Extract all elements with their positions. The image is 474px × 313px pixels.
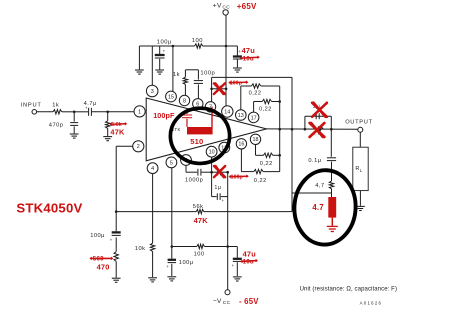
node mute left <box>210 171 213 174</box>
svg-text:4.7: 4.7 <box>312 203 323 212</box>
wire 47k to ground <box>107 128 109 136</box>
wire fb cap branch <box>115 212 117 232</box>
ground 10k <box>148 278 157 282</box>
capacitor 470p <box>70 123 78 126</box>
svg-text:0,22: 0,22 <box>259 106 272 112</box>
wire 100 link left <box>172 246 197 248</box>
terminal OUTPUT <box>358 127 363 132</box>
svg-text:18: 18 <box>253 137 259 143</box>
svg-text:470: 470 <box>97 263 110 272</box>
wire NFB to bootstrap <box>116 211 196 213</box>
wire +Vcc vertical feed <box>225 15 227 106</box>
highlight circle mod2 <box>292 169 357 247</box>
ground left of rail <box>135 70 144 74</box>
highlight circle mod1 <box>169 106 232 165</box>
svg-text:+: + <box>222 198 225 203</box>
wire pin13 leg <box>240 86 242 110</box>
wire 47u bottom stub <box>228 246 238 248</box>
ground added (red) <box>327 226 338 231</box>
svg-text:10: 10 <box>209 150 215 156</box>
wire pin15 up leg <box>172 46 174 91</box>
wire pin3 up leg <box>151 46 153 86</box>
wire 0.22d to rail <box>263 171 280 173</box>
wire zobel mid <box>331 162 333 181</box>
svg-text:0,22: 0,22 <box>254 178 267 184</box>
pin 5 <box>166 157 177 168</box>
wire zobel to node <box>331 189 333 197</box>
svg-text:−V: −V <box>213 298 222 305</box>
svg-text:10u: 10u <box>243 56 254 63</box>
pin 9 <box>181 155 192 166</box>
svg-text:L: L <box>360 168 363 173</box>
ground input 47k <box>103 137 112 141</box>
node -Vcc 100 link <box>226 245 229 248</box>
svg-text:+: + <box>110 237 113 242</box>
ground RL <box>356 206 365 210</box>
svg-text:OUTPUT: OUTPUT <box>345 120 373 126</box>
resistor 56k NFB <box>196 209 204 213</box>
wire pin4 down <box>152 174 154 244</box>
svg-text:100: 100 <box>192 38 203 44</box>
node LC left <box>304 128 307 131</box>
wire 100p to pin6 <box>197 84 199 98</box>
svg-text:100: 100 <box>194 252 205 258</box>
svg-text:1k: 1k <box>173 72 180 78</box>
svg-text:3: 3 <box>151 89 154 95</box>
node Xcap left <box>210 88 213 91</box>
svg-text:100μ: 100μ <box>90 233 105 239</box>
wire 0.22 rail <box>279 86 281 172</box>
svg-text:100p: 100p <box>200 71 215 77</box>
svg-text:100p: 100p <box>230 81 242 87</box>
pin 17 <box>248 112 259 123</box>
resistor 510 added (red) <box>187 127 213 134</box>
wire 100p upper leg <box>197 70 199 80</box>
terminal INPUT <box>32 110 37 115</box>
svg-text:56k: 56k <box>193 204 204 210</box>
node 0.22c rail <box>278 154 281 157</box>
pin 15 <box>166 91 177 102</box>
ground 100u top <box>155 70 164 74</box>
wire pin10 down <box>211 157 213 172</box>
wire pin17 leg <box>253 102 255 113</box>
wire zobel upper <box>330 129 332 157</box>
cross-out X over 100p cap <box>214 83 225 94</box>
capacitor 100u top <box>155 55 165 58</box>
wire pin5 down <box>171 168 173 247</box>
cross-out X inline resistor <box>310 123 325 137</box>
svg-text:510: 510 <box>190 137 203 146</box>
svg-text:14: 14 <box>224 109 230 115</box>
wire node to 4.7u <box>74 111 88 113</box>
wire 1k to pin8 <box>184 84 186 95</box>
pin 8 <box>179 95 189 105</box>
wire 4.7u to node2 <box>92 111 108 113</box>
svg-text:5: 5 <box>170 160 173 166</box>
resistor 0.22 b <box>262 99 271 103</box>
node rail-pin15 <box>172 45 175 48</box>
svg-text:2: 2 <box>137 144 140 150</box>
wire 10k to ground <box>152 251 154 277</box>
svg-text:- 65V: - 65V <box>239 297 259 306</box>
wire top supply rail <box>139 45 194 47</box>
wire input to 1k <box>37 111 53 113</box>
wire Xed LC bracket <box>304 116 306 129</box>
svg-text:47u: 47u <box>243 249 257 258</box>
resistor 1k input <box>53 110 62 114</box>
wire 510 to pin7 (red) <box>211 107 213 127</box>
wire 100 link right <box>204 246 227 248</box>
pin 16 <box>236 139 246 149</box>
cross-out X lower 100p <box>214 166 225 177</box>
svg-text:15: 15 <box>168 94 174 100</box>
pin 4 <box>147 163 158 174</box>
wire bootstrap top <box>212 76 292 78</box>
wire pin18 leg <box>255 145 257 156</box>
wire 1k to node <box>62 111 74 113</box>
svg-text:16: 16 <box>238 142 244 148</box>
svg-text:47K: 47K <box>194 216 209 225</box>
pin 7 <box>205 102 215 112</box>
ground 100u bottom <box>167 277 176 281</box>
svg-text:10k: 10k <box>135 246 146 252</box>
capacitor 100pF added (red) <box>186 112 188 114</box>
wire 47k branch upper <box>107 112 109 121</box>
pin 2 <box>133 141 144 152</box>
terminal +Vcc <box>223 10 228 15</box>
wire bootstrap right vertical <box>291 77 293 211</box>
svg-text:A01626: A01626 <box>360 301 383 306</box>
svg-text:4: 4 <box>151 166 154 172</box>
load RL box <box>353 147 368 190</box>
ground 47u bottom <box>233 277 242 281</box>
pin 10 <box>206 146 217 157</box>
capacitor 100u feedback <box>112 232 121 235</box>
svg-text:Unit (resistance: Ω, capacitan: Unit (resistance: Ω, capacitance: F) <box>300 287 397 293</box>
node output bootstrap <box>291 128 294 131</box>
svg-text:CC: CC <box>222 5 230 10</box>
capacitor 1u <box>217 193 220 200</box>
svg-text:1μ: 1μ <box>214 185 221 191</box>
svg-text:+V: +V <box>213 2 222 9</box>
node input filter <box>73 111 76 114</box>
wire 47u decoupling stub <box>226 45 237 47</box>
wire pin9 down <box>185 165 187 172</box>
resistor 470 feedback (was 560) <box>114 252 118 262</box>
wire output main <box>267 128 358 130</box>
wire 0.22b to rail <box>272 101 280 103</box>
pin 12 <box>219 142 230 153</box>
wire 1k upper leg <box>184 70 186 77</box>
wire -Vcc vertical <box>227 172 229 290</box>
svg-text:0.1μ: 0.1μ <box>308 158 321 164</box>
ground 470p <box>70 134 79 138</box>
node Xcap right <box>225 88 228 91</box>
wire pin2 feedback left <box>116 145 133 147</box>
terminal -Vcc <box>225 290 230 295</box>
wire pin7 leg with Xed cap <box>211 77 213 101</box>
svg-text:STK4050V: STK4050V <box>16 201 82 216</box>
resistor 0.22 c <box>263 153 272 157</box>
pin 18 <box>250 134 260 144</box>
capacitor 100p bias <box>194 81 203 84</box>
svg-text:13: 13 <box>238 113 244 119</box>
capacitor 0.1u zobel <box>327 158 336 161</box>
svg-text:1000p: 1000p <box>185 177 203 183</box>
svg-text:470p: 470p <box>49 123 64 129</box>
resistor 0.22 a <box>251 84 260 88</box>
resistor 0.22 d <box>254 169 263 173</box>
svg-text:8: 8 <box>183 98 186 104</box>
pin 3 <box>146 85 158 97</box>
wire 1000p to node <box>202 171 212 173</box>
wire output to RL <box>359 132 361 147</box>
capacitor 100p removed lower <box>212 171 218 173</box>
capacitor 100p removed <box>212 88 218 90</box>
svg-text:47u: 47u <box>242 46 256 55</box>
wire 1u branch <box>211 172 213 196</box>
svg-text:+: + <box>163 49 166 54</box>
ground feedback <box>112 278 121 282</box>
node after coupling <box>106 111 109 114</box>
svg-text:100p: 100p <box>231 175 243 181</box>
resistor 4.7 removed inline <box>313 127 323 131</box>
wire bootstrap to zobel <box>292 192 332 194</box>
node 0.22b rail <box>278 100 281 103</box>
ground 47u top <box>233 68 242 72</box>
svg-text:CC: CC <box>223 300 231 305</box>
svg-text:17: 17 <box>251 115 257 121</box>
svg-text:INPUT: INPUT <box>21 103 42 109</box>
wire 1k-100p bracket top <box>185 69 198 71</box>
capacitor 47u top <box>233 57 242 60</box>
resistor 1k bias <box>183 77 187 84</box>
wire rail left leg to ground <box>138 46 140 69</box>
wire RL to ground <box>359 191 361 206</box>
pin 1 <box>134 106 145 117</box>
svg-text:1: 1 <box>138 109 141 115</box>
svg-text:0,22: 0,22 <box>249 91 262 97</box>
svg-text:+65V: +65V <box>237 2 257 11</box>
resistor 10k <box>150 243 154 251</box>
svg-text:0,22: 0,22 <box>260 161 273 167</box>
wire 100u bias branch <box>171 247 173 259</box>
svg-text:+: + <box>166 264 169 269</box>
svg-text:100pF: 100pF <box>153 111 175 120</box>
wire 100u top branch <box>159 46 161 54</box>
node pin5 bottom <box>171 245 174 248</box>
wire 0.22c to rail <box>273 154 280 156</box>
resistor 47k input (was 5.6k) <box>106 121 110 129</box>
resistor 100 bottom <box>197 244 205 248</box>
pin 6 <box>193 99 203 109</box>
svg-text:100μ: 100μ <box>157 39 172 45</box>
capacitor 1000p <box>198 169 201 176</box>
svg-text:100μ: 100μ <box>179 260 194 266</box>
capacitor 4.7u coupling <box>89 108 92 116</box>
wire 0.22a to rail <box>261 85 280 87</box>
svg-text:+: + <box>232 263 235 268</box>
svg-text:4,7: 4,7 <box>315 183 324 189</box>
svg-text:47K: 47K <box>110 127 125 136</box>
node output 0.22 rail <box>278 128 281 131</box>
capacitor 100u bias bottom <box>168 260 176 263</box>
pin 14 <box>222 106 233 117</box>
resistor 4.7 added (red) <box>328 197 336 218</box>
svg-text:10u: 10u <box>243 259 254 266</box>
wire node2 to pin1 <box>108 111 134 113</box>
resistor 4.7 zobel <box>329 181 333 189</box>
cross-out X top branch <box>312 103 327 117</box>
capacitor removed top branch <box>316 113 319 119</box>
wire 470p branch <box>73 112 75 122</box>
wire pin16 leg <box>240 149 242 172</box>
node feedback <box>115 210 118 213</box>
node mute right <box>226 171 229 174</box>
node rail-Vcc <box>225 45 228 48</box>
pin 13 <box>236 110 247 121</box>
wire red to ground <box>331 218 333 226</box>
op-amp U1 STK4050V triangle <box>146 98 266 161</box>
capacitor 47u bottom <box>233 259 242 262</box>
svg-text:4.7μ: 4.7μ <box>84 101 97 107</box>
svg-text:1k: 1k <box>52 102 59 108</box>
wire 470 to ground <box>115 261 117 277</box>
resistor 100 top rail <box>195 44 203 48</box>
node LC right <box>330 128 333 131</box>
